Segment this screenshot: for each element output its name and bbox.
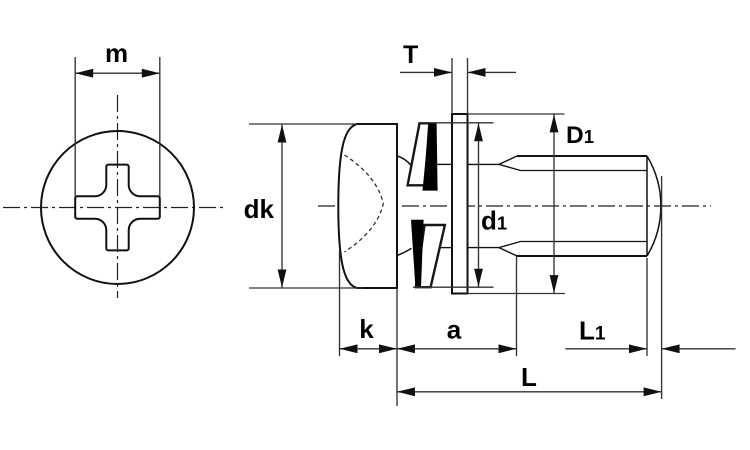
- dimension dk line with arrows: [278, 124, 287, 288]
- dimension D1 extension line bottom: [468, 293, 566, 295]
- spring washer lower half outline: [416, 225, 445, 287]
- dimension dk extension line bottom: [249, 287, 363, 289]
- dimension L1 extension line left (end face): [646, 258, 648, 356]
- dimension T extension line left: [451, 58, 453, 114]
- shared extension line under head (k, a, L): [396, 289, 398, 407]
- thread chamfer top: [499, 156, 521, 171]
- dimension T arrows: [400, 68, 516, 77]
- phillips recess cross (front view): [75, 165, 160, 251]
- screw end face: [646, 156, 648, 256]
- dimension m extension line left: [74, 57, 76, 197]
- svg-text:L: L: [521, 362, 537, 392]
- dimension a extension line right: [516, 257, 518, 357]
- rounded screw tip arc: [647, 156, 661, 256]
- flat washer (side view): [452, 114, 468, 294]
- spring washer lower half split (solid): [411, 220, 424, 287]
- hidden recess arc (dashed): [344, 155, 383, 252]
- front view horizontal centerline: [3, 207, 227, 209]
- dimension m line with arrows: [75, 69, 160, 78]
- pan head outline (side view): [338, 124, 397, 288]
- thread minor line top: [521, 170, 648, 172]
- thread minor line bottom: [521, 241, 648, 243]
- svg-text:T: T: [403, 41, 418, 69]
- dimension a line with arrows: [397, 344, 517, 353]
- svg-text:dk: dk: [244, 194, 275, 224]
- dimension d1 extension line bottom: [413, 286, 494, 288]
- dimension m extension line right: [159, 57, 161, 197]
- shank line washer to point top: [436, 163, 499, 165]
- dimension k line with arrows: [340, 344, 398, 353]
- dimension L line with arrows: [397, 387, 662, 396]
- svg-text:m: m: [105, 38, 128, 68]
- thread major diameter bottom: [517, 255, 647, 257]
- thread major diameter top: [517, 155, 647, 157]
- dimension d1 extension line top: [420, 122, 494, 124]
- shank line washer to point bottom: [440, 247, 499, 249]
- dimension T extension line right: [467, 58, 469, 114]
- svg-text:D1: D1: [566, 122, 594, 149]
- front view vertical centerline: [117, 95, 119, 298]
- dimension d1 line with arrows: [474, 123, 483, 287]
- dimension L1 arrows: [565, 344, 735, 353]
- screw axis centerline (side view): [318, 205, 711, 207]
- extension line at screw tip (L1, L): [661, 176, 663, 399]
- thread chamfer bottom: [499, 242, 521, 257]
- spring washer upper half split (solid): [423, 123, 438, 190]
- under-head fillet arc top: [397, 156, 411, 166]
- svg-text:k: k: [359, 314, 374, 344]
- head outline circle (front view): [41, 131, 194, 284]
- spring washer upper half outline: [408, 123, 430, 185]
- dimension k extension line left: [339, 250, 341, 356]
- dimension D1 line with arrows: [550, 114, 559, 294]
- under-head fillet arc bottom: [397, 248, 412, 255]
- dimension D1 extension line top: [468, 113, 565, 115]
- dimension dk extension line top: [249, 123, 357, 125]
- svg-text:a: a: [447, 315, 462, 345]
